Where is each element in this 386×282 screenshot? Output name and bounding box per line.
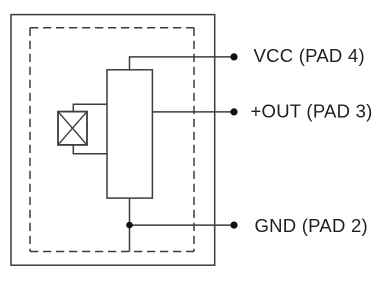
wire: GND horizontal to pad [130,224,235,226]
IC block U1 [107,70,152,198]
svg-text:VCC (PAD 4): VCC (PAD 4) [254,45,365,66]
pad dot GND [230,222,237,229]
package outline (outer solid rectangle) [11,15,215,266]
svg-text:+OUT (PAD 3): +OUT (PAD 3) [251,100,373,121]
hall element X1 (box with X) [58,112,87,145]
pad dot +OUT [230,108,237,115]
die boundary (inner dashed rectangle) [30,28,194,252]
wire: GND vertical from IC bottom to die edge [129,198,131,252]
junction dot on GND net [126,222,133,229]
wire: hall bottom to IC [73,145,107,154]
pad dot VCC [230,53,237,60]
wire: +OUT from IC right [152,111,234,113]
svg-text:GND (PAD 2): GND (PAD 2) [255,215,368,236]
wire: VCC from IC top [130,57,235,70]
wire: hall top to IC [73,104,107,111]
